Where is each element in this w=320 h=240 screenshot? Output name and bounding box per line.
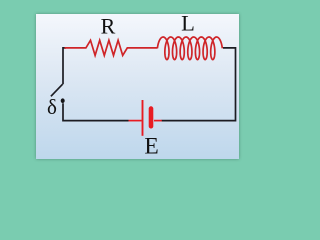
svg-text:L: L: [181, 10, 195, 35]
svg-text:R: R: [101, 13, 116, 38]
svg-text:δ: δ: [47, 95, 57, 119]
svg-text:E: E: [144, 133, 158, 159]
